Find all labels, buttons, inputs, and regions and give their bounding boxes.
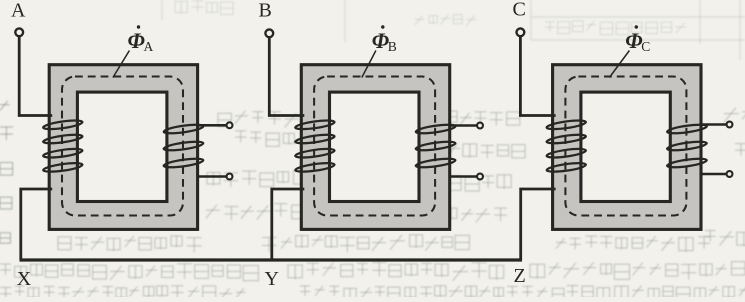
svg-text:Φ: Φ [372, 28, 389, 53]
core B window [330, 92, 420, 201]
wire from primary winding of B down to common bus (Y) [272, 189, 305, 260]
wire from terminal A to primary winding [19, 37, 52, 116]
terminal C circle [517, 28, 525, 36]
flux label leader line B [362, 51, 376, 78]
secondary terminal wires of core B [450, 124, 477, 127]
terminal B circle [265, 29, 273, 37]
flux path dashed loop B [314, 77, 435, 216]
svg-text:Y: Y [265, 268, 279, 290]
primary winding on left leg of core B [295, 119, 335, 174]
svg-text:Φ: Φ [625, 28, 642, 53]
svg-text:X: X [17, 268, 32, 290]
core A window [77, 92, 166, 201]
terminal A circle [15, 28, 23, 36]
wire from terminal B to primary winding [269, 38, 304, 116]
transformer core B (outer) [301, 65, 449, 230]
flux label leader line C [609, 51, 629, 78]
wire from terminal C to primary winding [520, 37, 555, 116]
svg-text:B: B [259, 0, 272, 21]
svg-text:C: C [641, 39, 650, 54]
flux path dashed loop C [565, 77, 686, 216]
svg-text:B: B [388, 39, 397, 54]
secondary terminal wires of core A [198, 124, 227, 127]
secondary winding on right leg of core B [415, 123, 456, 169]
svg-text:Φ: Φ [128, 28, 145, 53]
primary winding on left leg of core A [43, 119, 83, 174]
core C window [581, 92, 670, 201]
transformer core C (outer) [553, 65, 701, 230]
wire from primary winding of C down to common bus (Z) [521, 189, 556, 260]
secondary winding on right leg of core C [667, 123, 708, 169]
transformer core A (outer) [49, 65, 197, 230]
wire from primary winding of A down to common bus (X) [21, 189, 52, 260]
flux label leader line A [113, 51, 129, 78]
secondary winding on right leg of core A [163, 123, 204, 169]
flux path dashed loop A [62, 77, 183, 216]
svg-text:A: A [11, 0, 26, 21]
primary winding on left leg of core C [546, 119, 586, 174]
common bus wire joining X, Y, Z [20, 258, 523, 261]
svg-text:Z: Z [514, 265, 526, 287]
svg-text:A: A [144, 39, 154, 54]
svg-text:C: C [513, 0, 526, 20]
secondary terminal wires of core C [701, 123, 727, 126]
